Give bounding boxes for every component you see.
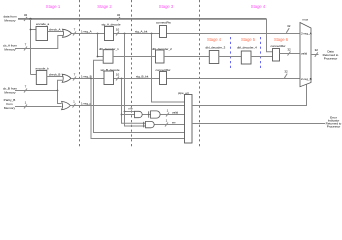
svg-text:1-reg_p: 1-reg_p (81, 101, 92, 105)
wire err out (155, 124, 185, 126)
svg-text:32: 32 (117, 13, 121, 17)
wire error indicator (192, 123, 325, 125)
slash 1 on Parity_B (24, 105, 27, 109)
svg-text:Stage 4: Stage 4 (207, 37, 222, 42)
svg-text:32: 32 (287, 24, 291, 28)
stage boundary dashed line 2-3 (131, 0, 133, 147)
wire dbl chain 3-4 (219, 56, 242, 58)
svg-text:32: 32 (284, 69, 288, 73)
svg-text:dbl_decoder_4: dbl_decoder_4 (237, 46, 257, 50)
slash 32 before mux input A (286, 28, 289, 33)
svg-text:mux: mux (303, 18, 309, 22)
slash 32 mux out (315, 52, 318, 56)
svg-text:valid: valid (172, 110, 179, 114)
svg-text:Memory: Memory (4, 91, 16, 95)
stub to xor gate lower (125, 112, 146, 127)
wire cb_A (15, 36, 64, 49)
svg-text:dbl_decoder_3: dbl_decoder_3 (206, 46, 226, 50)
slash 10 after sig_B_decode (116, 77, 119, 81)
wire into encode_b (31, 74, 37, 76)
junction on bus (29, 18, 31, 20)
svg-text:10: 10 (116, 27, 120, 31)
wire Parity_B (15, 106, 62, 108)
wire decoder chain (98, 34, 104, 57)
wire vertical tap from bus (30, 19, 32, 75)
wire dbl chain 4-connectRw (251, 56, 273, 58)
svg-text:err: err (172, 120, 176, 124)
wire 1-reg_B (71, 78, 300, 80)
wire 1-reg_p (70, 105, 184, 107)
junction taps on 1-reg_A wire (97, 33, 99, 35)
tap dbl_decoder_1 down (94, 60, 185, 132)
slash 7 after gate B (73, 77, 76, 81)
svg-text:valid: valid (301, 52, 308, 56)
svg-text:connectRw: connectRw (156, 21, 172, 25)
svg-text:Processor: Processor (327, 125, 341, 129)
slash 1 valid (166, 113, 169, 117)
svg-text:Stage 4: Stage 4 (251, 4, 266, 9)
svg-text:encode_b: encode_b (36, 67, 50, 71)
junction taps on 1-reg_B wire (90, 78, 92, 80)
gate check_A (xor) (63, 29, 72, 37)
svg-text:encode_a: encode_a (36, 22, 50, 26)
wire data bus (18, 18, 267, 20)
wire select to mux (192, 85, 307, 106)
wire mux output (311, 54, 319, 56)
slash 32 on connectRw out (288, 52, 291, 56)
svg-text:Stage 5: Stage 5 (241, 37, 256, 42)
svg-text:Memory: Memory (4, 106, 16, 110)
wire check_A (48, 31, 64, 33)
svg-text:Stage 6: Stage 6 (274, 37, 289, 42)
svg-text:32: 32 (287, 47, 291, 51)
svg-text:check_B: check_B (49, 72, 61, 76)
svg-text:sig_A_decode: sig_A_decode (102, 22, 121, 26)
tap 3 down to pipe box (152, 34, 185, 103)
riser cb_B to gate (58, 80, 63, 90)
wire into encode_a (31, 29, 37, 31)
gate parity_B check (xor) (62, 101, 71, 109)
wire and to gate2 (143, 114, 151, 116)
gate check_B (xor) (62, 74, 71, 82)
tap sig_A bit down (125, 34, 135, 112)
dropper cb_B to parity gate (58, 91, 62, 104)
stage boundary dashed line 3-4 (199, 0, 201, 147)
stub to and gate upper (122, 114, 135, 116)
svg-text:1-reg_A: 1-reg_A (81, 29, 92, 33)
bus slash 32 (24, 17, 27, 21)
svg-text:sig_B_bit: sig_B_bit (136, 74, 149, 78)
wire cb_B (15, 90, 58, 92)
slash 10 after sig_A_decode (116, 32, 119, 36)
wire dbl chain 2-3 (164, 56, 210, 58)
gate err (xor) (146, 121, 155, 127)
wire bus corner down to mux (267, 19, 273, 52)
svg-text:2-reg_B: 2-reg_B (301, 77, 312, 81)
slash 7 after gate A (73, 32, 76, 36)
svg-text:Stage 1: Stage 1 (46, 4, 61, 9)
svg-text:sig_A_bit: sig_A_bit (135, 29, 148, 33)
svg-text:check_A: check_A (49, 27, 61, 31)
svg-text:connectRw: connectRw (271, 44, 287, 48)
wire valid out (160, 114, 184, 116)
svg-text:1-reg_B: 1-reg_B (81, 74, 92, 78)
tap sig_B bit down (122, 79, 146, 124)
svg-text:Stage 2: Stage 2 (97, 4, 112, 9)
wire connectRw to mux (280, 53, 300, 55)
bus slash 32 (stage 2) (117, 17, 120, 21)
gate valid (and) (151, 111, 161, 118)
stage boundary dashed line 5-6 inner (260, 37, 262, 70)
slash 1 after parity gate (73, 104, 76, 108)
svg-text:32: 32 (24, 13, 28, 17)
tap sig_B in down (91, 79, 185, 139)
slash 1 err (165, 123, 168, 127)
wire check_B (47, 76, 63, 78)
stage boundary dashed line 1-2 (79, 0, 81, 147)
svg-text:Processor: Processor (324, 57, 338, 61)
svg-text:Memory: Memory (4, 48, 16, 52)
wire dbl chain 1-2 (113, 56, 156, 58)
svg-text:10: 10 (116, 72, 120, 76)
slash 7 on cb_B (24, 89, 27, 93)
stage boundary dashed line 4-5 inner (230, 37, 232, 70)
slash 7 on cb_A (24, 47, 27, 51)
svg-text:32: 32 (315, 48, 319, 52)
svg-text:Stage 3: Stage 3 (159, 4, 174, 9)
wire 1-reg_A (72, 33, 300, 35)
slash 32 before mux input B (284, 74, 287, 79)
svg-text:Memory: Memory (4, 19, 16, 23)
svg-text:2-reg_A: 2-reg_A (301, 32, 312, 36)
